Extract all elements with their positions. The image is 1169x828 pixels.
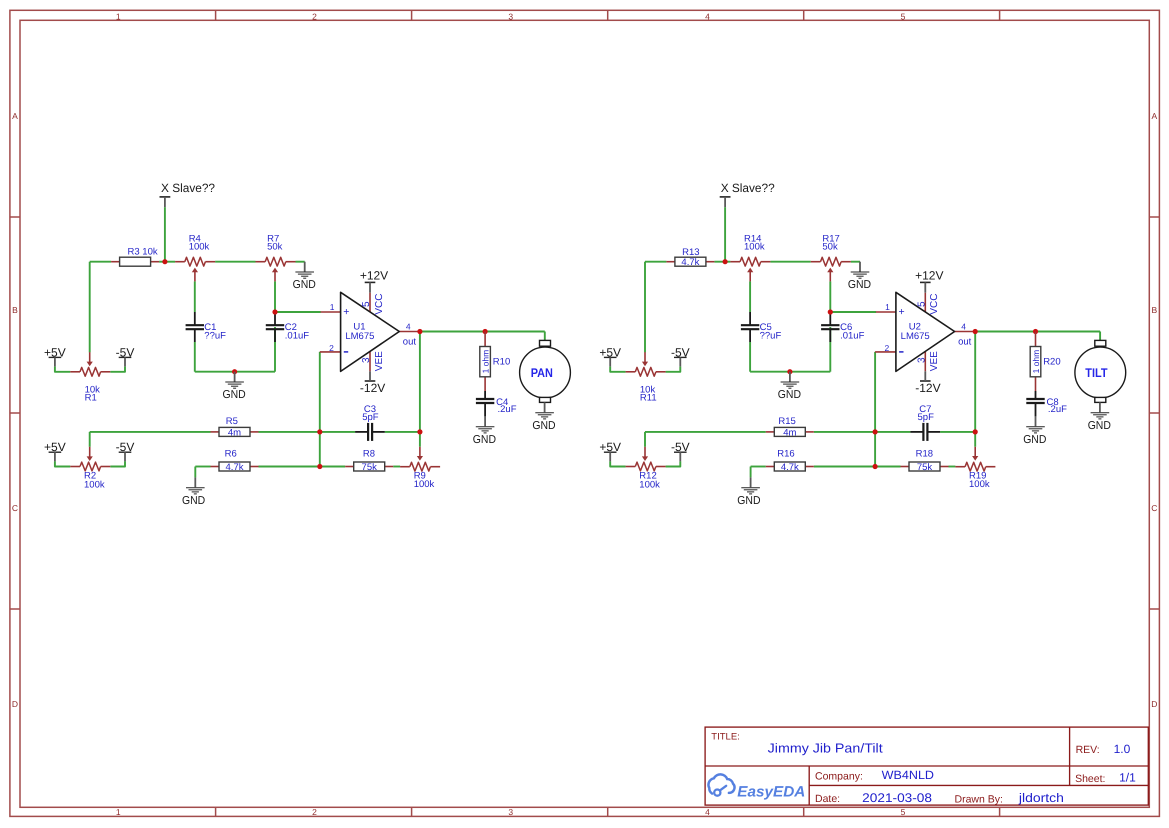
svg-text:50k: 50k	[822, 242, 838, 253]
svg-text:B: B	[12, 305, 18, 315]
wire: top row R3 area	[90, 261, 111, 263]
power flag +12V on U1 VCC	[360, 269, 388, 293]
svg-text:X Slave??: X Slave??	[721, 181, 775, 195]
wire: C1 bottom to ground bus	[194, 342, 196, 372]
wire: left vertical to pot wiper	[89, 262, 91, 353]
potentiometer R14 100k	[730, 234, 770, 282]
wire: lower pot to -5V flag	[666, 461, 681, 466]
svg-text:50k: 50k	[267, 242, 283, 253]
potentiometer R9 100k	[400, 447, 440, 490]
svg-text:.01uF: .01uF	[840, 331, 864, 342]
svg-text:2021-03-08: 2021-03-08	[862, 791, 932, 805]
ground symbol below C1/C2 bus	[223, 372, 246, 401]
resistor R20 1 ohm	[1030, 332, 1060, 392]
junction node -input/R6 row	[317, 464, 322, 469]
svg-text:VCC: VCC	[929, 294, 940, 315]
svg-text:D: D	[12, 699, 18, 709]
potentiometer R1 10k	[70, 352, 110, 404]
junction node -input/R5 row	[317, 429, 322, 434]
svg-text:REV:: REV:	[1076, 744, 1100, 756]
svg-text:GND: GND	[182, 495, 205, 507]
svg-text:100k: 100k	[414, 479, 435, 490]
ground symbol below C4	[473, 416, 496, 445]
svg-text:jldortch: jldortch	[1018, 791, 1064, 805]
svg-text:2: 2	[329, 343, 334, 353]
svg-text:Sheet:: Sheet:	[1075, 773, 1105, 785]
net label X Slave?? (left)	[160, 181, 216, 207]
junction node on ground bus	[232, 369, 237, 374]
svg-text:R15: R15	[778, 416, 795, 427]
wire: R7 to GND corner	[851, 261, 860, 263]
potentiometer R2 100k	[70, 447, 110, 491]
junction node at R3/R4	[162, 259, 167, 264]
svg-text:??uF: ??uF	[760, 331, 782, 342]
wire: -input vertical	[319, 352, 321, 467]
svg-text:3: 3	[917, 357, 928, 363]
svg-text:out: out	[403, 336, 417, 347]
wire: +5V flag to pot	[610, 367, 625, 372]
svg-text:5: 5	[901, 11, 906, 21]
resistor R3 10k	[111, 247, 159, 267]
wire: R7 wiper down to C2 junction	[829, 281, 831, 312]
wire: +5V flag to lower pot	[610, 461, 625, 466]
wire: pot2 wiper drop	[89, 432, 91, 447]
svg-text:4: 4	[961, 321, 966, 331]
junction node at U1 output	[417, 329, 422, 334]
wire: R7 wiper down to C2 junction	[274, 281, 276, 312]
svg-text:A: A	[12, 111, 18, 121]
motor M PAN	[520, 340, 571, 402]
wire: output to motor corner	[544, 332, 546, 341]
capacitor C4 .2uF	[476, 391, 517, 416]
wire: X-slave net to R3/R4 junction	[164, 207, 166, 262]
wire: ground bus C1-C2	[750, 371, 830, 373]
junction node -input/R5 row	[873, 429, 878, 434]
wire: output vertical to feedback	[419, 332, 421, 447]
svg-text:2: 2	[312, 11, 317, 21]
svg-text:1: 1	[116, 807, 121, 817]
power flag -5V (lower pot R12)	[671, 440, 690, 461]
svg-text:VCC: VCC	[374, 294, 385, 315]
svg-text:R13: R13	[682, 247, 699, 258]
ground symbol below R6 wire	[737, 477, 760, 506]
wire: -input vertical	[874, 352, 876, 467]
svg-text:2: 2	[884, 343, 889, 353]
svg-text:PAN: PAN	[531, 366, 553, 380]
resistor R6 4.7k	[211, 449, 259, 473]
svg-text:VEE: VEE	[374, 351, 385, 371]
wire: ground bus C1-C2	[195, 371, 275, 373]
svg-text:WB4NLD: WB4NLD	[882, 768, 935, 782]
svg-text:100k: 100k	[84, 479, 105, 490]
svg-text:R1: R1	[85, 393, 97, 404]
wire: left vertical to pot wiper	[644, 262, 646, 353]
svg-text:.2uF: .2uF	[498, 404, 517, 415]
wire: R7 to GND corner	[296, 261, 305, 263]
svg-text:VEE: VEE	[929, 351, 940, 371]
wire: R6 row	[751, 466, 766, 468]
svg-text:+: +	[899, 306, 905, 318]
wire: R4 wiper down to C1	[749, 281, 751, 312]
svg-text:100k: 100k	[189, 242, 210, 253]
svg-text:GND: GND	[848, 279, 871, 291]
capacitor C7 5pF	[910, 404, 940, 441]
wire: C2 junction to op-amp +input	[830, 311, 876, 313]
svg-text:1: 1	[330, 302, 335, 312]
svg-text:R18: R18	[916, 449, 933, 460]
wire: X-slave net to R3/R4 junction	[724, 207, 726, 262]
wire: pot to -5V flag	[666, 367, 681, 372]
power flag +5V (upper pot R11)	[599, 345, 621, 366]
svg-text:2: 2	[312, 807, 317, 817]
wire: pot2 wiper drop	[644, 432, 646, 447]
wire: output vertical to feedback	[974, 332, 976, 447]
svg-text:75k: 75k	[917, 462, 933, 473]
svg-text:+12V: +12V	[915, 269, 943, 283]
junction node at C6 top / +input	[828, 309, 833, 314]
wire: top row R3 area	[645, 261, 666, 263]
junction node at R10 top	[483, 329, 488, 334]
wire: C2 junction to op-amp +input	[275, 311, 321, 313]
ground symbol below R6 wire	[182, 477, 205, 506]
svg-text:4.7k: 4.7k	[781, 462, 799, 473]
svg-text:75k: 75k	[362, 462, 378, 473]
junction node output/R5 row	[973, 429, 978, 434]
wire: op-amp output	[420, 331, 545, 333]
wire: +5V flag to pot	[55, 367, 70, 372]
power flag +5V (lower pot R12)	[599, 440, 621, 461]
svg-text:??uF: ??uF	[204, 331, 226, 342]
junction node at U2 output	[973, 329, 978, 334]
resistor R5 4m	[211, 416, 259, 438]
wire: R4 to R7	[215, 261, 255, 263]
svg-text:.2uF: .2uF	[1048, 404, 1067, 415]
capacitor C2 .01uF	[266, 312, 309, 342]
svg-text:Date:: Date:	[815, 793, 840, 805]
ground symbol below motor TILT	[1088, 402, 1111, 431]
svg-text:3: 3	[508, 11, 513, 21]
svg-text:R6: R6	[225, 449, 237, 460]
svg-text:Jimmy Jib Pan/Tilt: Jimmy Jib Pan/Tilt	[768, 741, 883, 756]
svg-text:1 ohm: 1 ohm	[481, 350, 491, 374]
capacitor C1 ??uF	[186, 312, 227, 342]
wire: junction to R4	[725, 261, 730, 263]
svg-text:GND: GND	[778, 389, 801, 401]
svg-text:out: out	[958, 336, 972, 347]
potentiometer R4 100k	[175, 234, 215, 282]
frame column numbers	[116, 11, 906, 817]
EasyEDA logo	[708, 774, 805, 800]
resistor R15 4m	[766, 416, 814, 438]
title block frame	[705, 727, 1148, 805]
svg-text:LM675: LM675	[901, 331, 930, 342]
svg-text:GND: GND	[1023, 434, 1046, 446]
svg-text:R11: R11	[640, 393, 657, 404]
svg-text:-12V: -12V	[915, 381, 940, 395]
resistor R18 75k	[901, 449, 949, 473]
power flag +5V (lower pot R2)	[44, 440, 66, 461]
potentiometer R7 50k	[256, 234, 296, 282]
svg-text:5pF: 5pF	[362, 412, 379, 423]
resistor R10 1 ohm	[480, 332, 510, 392]
power flag -5V (upper pot R11)	[671, 345, 690, 366]
power flag -5V (lower pot R2)	[116, 440, 135, 461]
svg-text:TILT: TILT	[1085, 366, 1108, 380]
potentiometer R12 100k	[626, 447, 666, 491]
svg-text:3: 3	[361, 357, 372, 363]
svg-text:EasyEDA: EasyEDA	[737, 784, 805, 801]
svg-text:4: 4	[705, 11, 710, 21]
resistor R16 4.7k	[766, 449, 814, 473]
svg-text:R10: R10	[493, 357, 510, 368]
op-amp U2 LM675	[875, 292, 975, 371]
ground symbol at R7 top row	[848, 262, 871, 291]
ground symbol at R7 top row	[293, 262, 316, 291]
svg-text:4.7k: 4.7k	[681, 257, 699, 268]
wire: R6 row	[195, 466, 210, 468]
svg-text:100k: 100k	[744, 242, 765, 253]
svg-text:-12V: -12V	[360, 381, 385, 395]
power flag -12V on U1 VEE	[360, 371, 385, 395]
capacitor C5 ??uF	[741, 312, 782, 342]
ground symbol below C1/C2 bus	[778, 372, 801, 401]
svg-text:1: 1	[885, 302, 890, 312]
svg-text:5: 5	[361, 301, 372, 307]
svg-text:100k: 100k	[969, 479, 990, 490]
capacitor C3 5pF	[355, 404, 385, 441]
svg-text:1 ohm: 1 ohm	[1031, 350, 1041, 374]
wire: R5 row	[90, 431, 211, 433]
svg-text:B: B	[1151, 305, 1157, 315]
svg-text:C: C	[1151, 503, 1157, 513]
capacitor C8 .2uF	[1026, 391, 1067, 416]
svg-text:R20: R20	[1043, 357, 1060, 368]
svg-text:TITLE:: TITLE:	[711, 731, 740, 742]
svg-text:GND: GND	[737, 495, 760, 507]
svg-text:D: D	[1151, 699, 1157, 709]
wire: R5 row	[645, 431, 766, 433]
resistor R8 75k	[345, 449, 393, 473]
svg-text:3: 3	[508, 807, 513, 817]
U1 -input symbol	[344, 351, 348, 353]
svg-text:Drawn By:: Drawn By:	[955, 794, 1003, 806]
wire: C2 bottom leg	[829, 327, 831, 372]
wire: C2 bottom leg	[274, 327, 276, 372]
junction node at C2 top / +input	[272, 309, 277, 314]
wire: output to motor corner	[1099, 332, 1101, 341]
svg-text:C: C	[12, 503, 18, 513]
svg-text:R5: R5	[226, 416, 238, 427]
svg-text:1: 1	[116, 11, 121, 21]
svg-text:+12V: +12V	[360, 269, 388, 283]
svg-text:1/1: 1/1	[1119, 771, 1136, 785]
motor M TILT	[1075, 340, 1126, 402]
svg-text:GND: GND	[1088, 420, 1111, 432]
power flag -5V (upper pot R1)	[116, 345, 135, 366]
svg-text:+: +	[343, 306, 349, 318]
wire: R6 gnd drop	[750, 467, 752, 478]
junction node at R20 top	[1033, 329, 1038, 334]
wire: R4 wiper down to C1	[194, 281, 196, 312]
svg-text:X Slave??: X Slave??	[161, 181, 215, 195]
svg-text:5: 5	[901, 807, 906, 817]
svg-text:GND: GND	[293, 279, 316, 291]
svg-text:GND: GND	[473, 434, 496, 446]
svg-text:4m: 4m	[228, 427, 241, 438]
junction node at R13/R14	[723, 259, 728, 264]
op-amp U1 LM675	[320, 292, 420, 371]
svg-text:LM675: LM675	[345, 331, 374, 342]
power flag +12V on U2 VCC	[915, 269, 943, 293]
wire: junction to R4	[165, 261, 175, 263]
capacitor C6 .01uF	[821, 312, 864, 342]
resistor R13 4.7k	[666, 247, 714, 268]
U2 -input symbol	[899, 351, 903, 353]
wire: lower pot to -5V flag	[110, 461, 125, 466]
svg-text:5: 5	[917, 301, 928, 307]
svg-text:R16: R16	[777, 449, 794, 460]
junction node on ground bus	[787, 369, 792, 374]
svg-text:1.0: 1.0	[1114, 742, 1131, 756]
svg-text:R3 10k: R3 10k	[128, 247, 158, 258]
ground symbol below motor PAN	[532, 402, 555, 431]
junction node output/R5 row	[417, 429, 422, 434]
wire: R4 to R7	[770, 261, 810, 263]
svg-text:100k: 100k	[639, 479, 660, 490]
potentiometer R17 50k	[811, 234, 851, 282]
ground symbol below C8	[1023, 416, 1046, 445]
svg-text:Company:: Company:	[815, 771, 863, 783]
potentiometer R11 10k	[626, 352, 666, 404]
svg-text:4: 4	[705, 807, 710, 817]
wire: +5V flag to lower pot	[55, 461, 70, 466]
svg-text:4: 4	[406, 321, 411, 331]
svg-text:GND: GND	[223, 389, 246, 401]
wire: pot to -5V flag	[110, 367, 125, 372]
wire: C1 bottom to ground bus	[749, 342, 751, 372]
svg-text:R8: R8	[363, 449, 375, 460]
junction node -input/R6 row	[873, 464, 878, 469]
power flag +5V (upper pot R1)	[44, 345, 66, 366]
svg-text:GND: GND	[532, 420, 555, 432]
power flag -12V on U2 VEE	[915, 371, 940, 395]
potentiometer R19 100k	[955, 447, 995, 490]
frame row letters	[12, 111, 1158, 709]
svg-text:4.7k: 4.7k	[226, 462, 244, 473]
wire: R6 gnd drop	[194, 467, 196, 478]
net label X Slave?? (right)	[720, 181, 775, 207]
svg-text:.01uF: .01uF	[285, 331, 309, 342]
svg-text:5pF: 5pF	[918, 412, 935, 423]
wire: op-amp output	[975, 331, 1100, 333]
svg-text:4m: 4m	[783, 427, 796, 438]
svg-text:A: A	[1151, 111, 1157, 121]
